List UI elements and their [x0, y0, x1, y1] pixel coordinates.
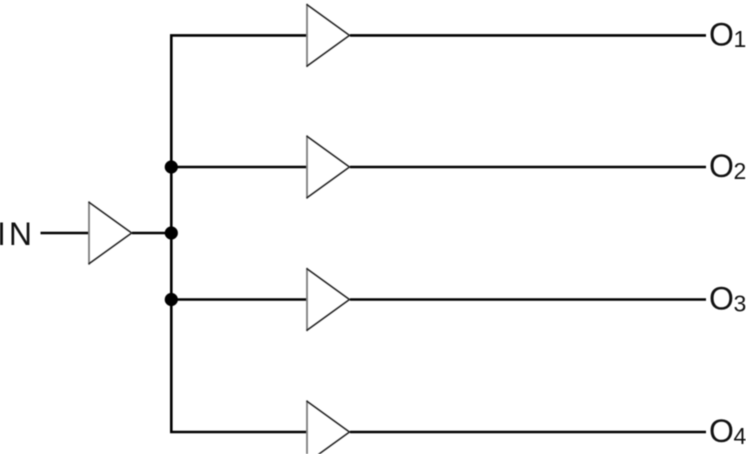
wire U4 output to O3 — [350, 298, 706, 301]
op-amp buffer U4 — [306, 268, 308, 331]
wire U1 output to bus node — [132, 232, 172, 235]
svg-text:O: O — [709, 281, 734, 317]
svg-text:O: O — [709, 413, 734, 449]
svg-text:2: 2 — [734, 158, 746, 184]
wire branch 4 bus to buffer U5 — [170, 431, 307, 434]
junction dot at branch O2 — [165, 160, 178, 173]
wire branch 2 bus to buffer U3 — [171, 166, 307, 169]
junction dot at input node — [165, 226, 178, 239]
wire branch 3 bus to buffer U4 — [171, 298, 307, 301]
wire U5 output to O4 — [350, 431, 706, 434]
wire branch 1 bus to buffer U2 — [170, 34, 307, 37]
wire vertical bus — [170, 35, 173, 432]
op-amp buffer U3 — [306, 135, 308, 198]
wire IN input to buffer U1 — [41, 232, 90, 235]
wire U2 output to O1 — [350, 34, 706, 37]
op-amp buffer U1 (input buffer) — [88, 201, 90, 264]
op-amp buffer U5 — [306, 400, 308, 454]
svg-text:1: 1 — [734, 26, 746, 52]
wire U3 output to O2 — [350, 166, 706, 169]
op-amp buffer U2 — [306, 4, 308, 67]
svg-text:4: 4 — [734, 423, 746, 449]
svg-text:IN: IN — [0, 216, 35, 252]
svg-text:3: 3 — [734, 290, 746, 316]
svg-text:O: O — [709, 16, 734, 52]
svg-text:O: O — [709, 148, 734, 184]
junction dot at branch O3 — [165, 293, 178, 306]
